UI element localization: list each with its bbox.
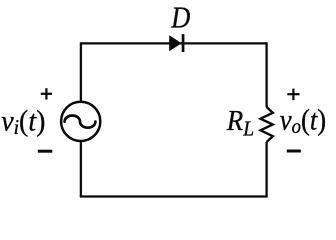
svg-text:D: D — [170, 1, 190, 35]
wire bottom — [80, 195, 268, 197]
plus sign source — [41, 88, 52, 99]
wire right upper — [265, 42, 267, 107]
source V1 sine wave — [65, 116, 96, 128]
wire left lower — [80, 142, 82, 197]
minus sign output — [287, 150, 301, 153]
svg-text:vo(t): vo(t) — [280, 104, 326, 138]
wire right lower — [265, 142, 267, 197]
source V1 circle — [61, 102, 100, 141]
resistor RL zigzag — [261, 107, 273, 142]
svg-text:vi(t): vi(t) — [1, 105, 45, 140]
diode D triangle (anode) — [169, 35, 181, 51]
diode D cathode bar — [182, 34, 185, 52]
wire left upper — [80, 42, 82, 101]
plus sign output — [287, 89, 299, 101]
wire top — [81, 42, 267, 44]
minus sign source — [38, 150, 53, 153]
